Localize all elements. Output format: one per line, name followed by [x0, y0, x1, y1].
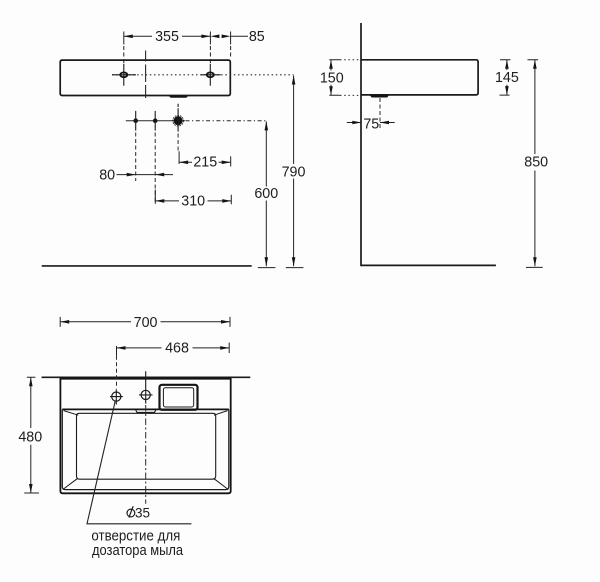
- svg-text:80: 80: [99, 168, 115, 184]
- svg-text:600: 600: [254, 186, 278, 202]
- corner slope line top-left: [64, 411, 79, 416]
- dimension 700: [60, 317, 230, 327]
- drain hole ring: [173, 115, 184, 126]
- svg-text:700: 700: [134, 315, 158, 331]
- dimension 790: [286, 76, 304, 268]
- overflow opening inner: [163, 388, 193, 407]
- svg-text:215: 215: [193, 155, 217, 171]
- faucet deck hole 2 vertical line: [154, 111, 156, 131]
- mounting hole right (cross): [201, 64, 221, 86]
- basin floor outline: [77, 413, 216, 479]
- overflow opening outer: [160, 385, 198, 410]
- soap dispenser hole: [112, 392, 121, 401]
- faucet deck hole 1 dashed extension down: [135, 133, 137, 182]
- deck holes horizontal centerline solid: [126, 120, 185, 122]
- drain recess bump under front outline: [168, 95, 188, 98]
- svg-text:480: 480: [18, 430, 42, 446]
- mounting holes dotted centerline: [112, 74, 294, 76]
- dimension 150: [329, 60, 340, 96]
- faucet hole dashed centerline down to label: [145, 405, 147, 504]
- basin plan outer outline: [60, 379, 230, 494]
- drain dashed extension in side view: [379, 98, 381, 128]
- front vertical centerline: [145, 51, 147, 99]
- faucet deck hole 1 vertical line: [135, 111, 137, 131]
- svg-text:850: 850: [524, 155, 548, 171]
- svg-text:145: 145: [495, 70, 519, 86]
- dimension 850: [526, 60, 543, 268]
- svg-text:310: 310: [181, 194, 205, 210]
- basin front outline: [60, 60, 230, 95]
- faucet deck hole 2 dashed extension down: [154, 133, 156, 204]
- svg-text:дозатора мыла: дозатора мыла: [92, 543, 183, 559]
- corner slope line bottom-left: [64, 478, 78, 489]
- drain vertical line: [177, 104, 179, 132]
- dimension 80: [117, 174, 174, 176]
- dimension 310: [155, 190, 231, 205]
- soap hole dashed extension up to 468 dim: [116, 356, 118, 389]
- dimension 145: [500, 60, 511, 95]
- deck holes centerline dashed extension to 600 dim: [186, 120, 267, 122]
- drain hole: [174, 116, 183, 125]
- dotted extensions for 150: [340, 59, 360, 61]
- basin rim outline: [62, 409, 229, 489]
- mounting hole left: [120, 72, 127, 77]
- dimension 600: [258, 121, 276, 267]
- svg-text:468: 468: [165, 341, 189, 357]
- wall and floor line: [361, 23, 496, 265]
- diameter symbol for ϕ35: [127, 506, 135, 517]
- svg-text:790: 790: [282, 164, 306, 180]
- dimension 355: [124, 32, 211, 64]
- faucet deck hole 1: [133, 118, 138, 123]
- overflow notch in deck edge: [136, 410, 156, 412]
- corner slope line bottom-right: [214, 478, 228, 489]
- svg-text:35: 35: [135, 506, 150, 521]
- leader line from soap hole: [87, 401, 191, 524]
- svg-text:355: 355: [155, 29, 179, 45]
- corner slope line top-right: [214, 411, 228, 416]
- drain dashed extension down: [177, 134, 179, 151]
- svg-text:75: 75: [363, 116, 379, 132]
- dimension 85: [231, 32, 248, 59]
- soap dispenser hole cross: [110, 389, 123, 404]
- basin rim deck edge (thick top line): [62, 408, 229, 410]
- basin side profile: [361, 60, 478, 95]
- svg-text:85: 85: [249, 29, 265, 45]
- dimension 215: [179, 151, 231, 166]
- drain bump under side profile: [369, 95, 389, 98]
- dimension 480: [24, 377, 39, 493]
- floor line under front view: [42, 265, 252, 267]
- svg-text:150: 150: [320, 71, 344, 87]
- mounting hole left (cross): [112, 64, 136, 86]
- faucet hole cross: [139, 371, 153, 403]
- mounting hole right: [207, 72, 214, 77]
- faucet hole: [141, 390, 150, 399]
- wall line behind basin: [42, 376, 251, 378]
- faucet deck hole 2: [153, 118, 158, 123]
- dimension 75: [347, 122, 395, 124]
- dimension 468: [117, 343, 230, 356]
